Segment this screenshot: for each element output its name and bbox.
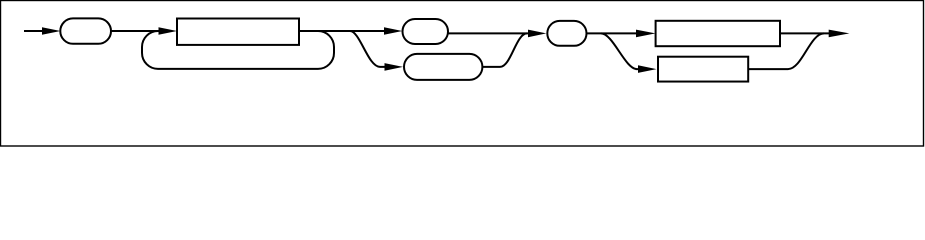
arrowhead into pill1 xyxy=(42,27,61,35)
wire loop left U-turn xyxy=(142,31,158,69)
wire pill3 exit and merge S-curve up xyxy=(482,33,527,67)
wire start segment xyxy=(24,30,44,32)
terminal pill3 xyxy=(404,54,482,80)
wire split S-curve down to rect3 xyxy=(601,33,639,69)
wire loop right U-turn xyxy=(318,31,334,69)
terminal pill4 xyxy=(547,21,586,46)
outer frame border xyxy=(1,1,924,147)
wire rect3 exit and merge S-curve up xyxy=(748,33,824,69)
wire loop bottom xyxy=(158,68,318,70)
arrowhead end of diagram xyxy=(829,30,850,38)
arrowhead into rect2 xyxy=(636,30,656,38)
arrowhead into pill4 xyxy=(528,30,546,38)
wire main rail pill4 to rect2 xyxy=(587,32,638,34)
wire main rail pill2 to pill4 xyxy=(448,32,529,34)
arrowhead into pill3 xyxy=(385,63,404,71)
wire split S-curve down to pill3 xyxy=(350,31,385,67)
arrowhead into rect1 xyxy=(159,27,178,35)
wire main rail pill1 to rect1 xyxy=(111,30,162,32)
arrowhead into rect3 xyxy=(638,65,657,73)
wire main rail rect1 to pill2 xyxy=(299,30,386,32)
nonterminal rect2 xyxy=(656,21,780,46)
nonterminal rect3 xyxy=(658,57,748,82)
nonterminal rect1 xyxy=(177,19,299,45)
terminal pill2 xyxy=(403,19,449,44)
wire main rail rect2 to end arrow xyxy=(780,32,830,34)
arrowhead into pill2 xyxy=(384,27,402,35)
terminal pill1 xyxy=(60,18,111,43)
